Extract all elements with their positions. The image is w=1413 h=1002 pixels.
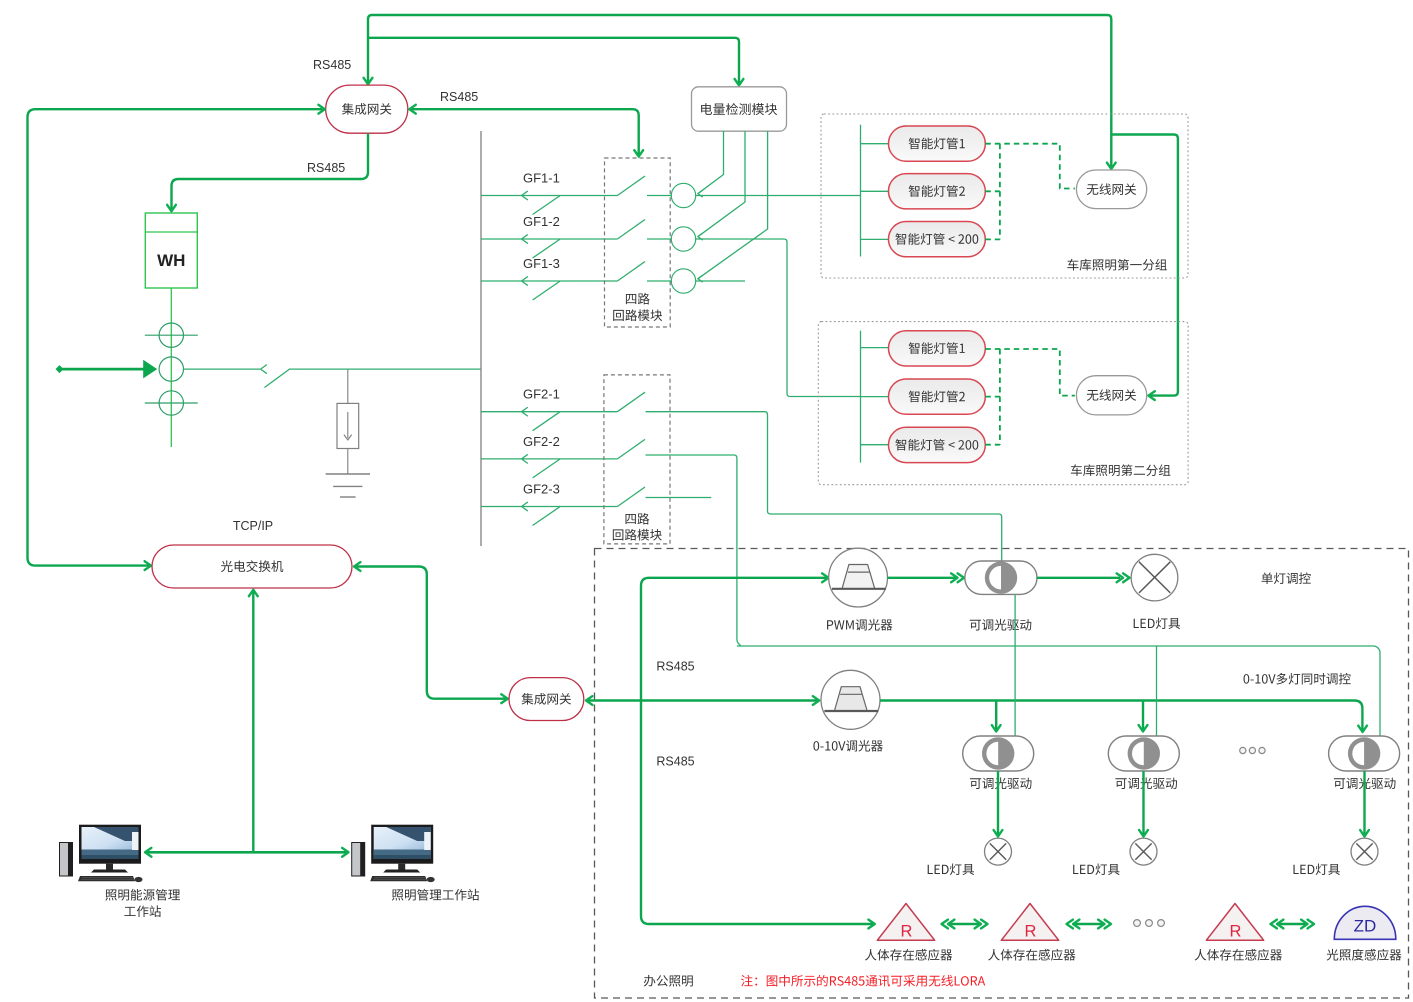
smart lamp 智能灯管2 (group2) bbox=[889, 379, 986, 414]
wire: GF2-2 to multi-lamp bus bbox=[646, 455, 741, 646]
svg-text:RS485: RS485 bbox=[656, 660, 694, 674]
group2 wireless dashed link bbox=[985, 349, 1075, 445]
CT coil 3 bbox=[145, 391, 198, 415]
smart lamp 智能灯管<200 (group2) bbox=[889, 427, 986, 462]
wire: GF2-1 to single-lamp dimming feed bbox=[646, 412, 1002, 562]
svg-text:GF1-1: GF1-1 bbox=[523, 171, 560, 186]
wireless gateway 无线网关 (group2) bbox=[1076, 376, 1146, 415]
label TCP/IP bbox=[233, 519, 273, 533]
disconnect switch blade (main feed) bbox=[265, 369, 291, 388]
svg-text:GF2-2: GF2-2 bbox=[523, 434, 560, 449]
breaker GF1-2 bbox=[481, 214, 671, 258]
relay contact circle GF1-2 bbox=[671, 227, 695, 251]
wire: driver C to LED C bbox=[1360, 771, 1369, 836]
svg-text:R: R bbox=[901, 923, 913, 941]
svg-text:R: R bbox=[1230, 923, 1242, 941]
dimmable driver0 可调光驱动 (single lamp) bbox=[965, 561, 1037, 631]
label RS485 (office upper) bbox=[656, 660, 694, 674]
smart lamp 智能灯管1 (group2) bbox=[889, 331, 986, 366]
wire RS485: gateway1 to 4-way module1 bbox=[409, 105, 643, 157]
label RS485 (top) bbox=[313, 58, 351, 72]
label 单灯调控 bbox=[1261, 572, 1310, 584]
garage lighting group1 box 车库照明第一分组 bbox=[821, 114, 1188, 278]
wire: photoelectric switch to gateway2 bbox=[354, 562, 508, 703]
office lighting box 办公照明 bbox=[595, 549, 1409, 999]
illuminance sensor ZD 光照度感应器 bbox=[1327, 906, 1402, 960]
LED luminaire B bbox=[1073, 838, 1157, 875]
relay contact circle GF1-3 bbox=[671, 269, 695, 293]
smart lamp 智能灯管<200 (group1) bbox=[889, 222, 986, 257]
ellipsis dots (sensors) bbox=[1134, 920, 1165, 927]
wire RS485: gateway1 bottom to WH meter bbox=[167, 133, 368, 211]
LED luminaire C bbox=[1293, 838, 1378, 875]
ellipsis dots (drivers) bbox=[1240, 747, 1265, 753]
wire: workstation link arrows bbox=[145, 848, 349, 857]
group2 tick to lamp3 bbox=[861, 444, 889, 446]
link R1-R2 (bidirectional) bbox=[942, 920, 988, 929]
0-10V dimmer 0-10V调光器 bbox=[813, 670, 882, 751]
label RS485 (gateway right) bbox=[440, 90, 478, 104]
svg-text:RS485: RS485 bbox=[307, 161, 345, 175]
breaker GF1-1 bbox=[481, 171, 671, 215]
group2 distribution bus bbox=[860, 331, 862, 463]
group2 tick to lamp1 bbox=[861, 347, 889, 349]
link R3-ZD (bidirectional) bbox=[1271, 920, 1315, 929]
CT coil 2 (line tap) bbox=[159, 357, 183, 381]
photoelectric switch 光电交换机 bbox=[152, 545, 352, 588]
wire: 0-10V dimmer trunk to driver C bbox=[880, 701, 1367, 733]
label RS485 (office lower) bbox=[656, 755, 694, 769]
wire: gateway2 to office trunk and 0-10V dimmer bbox=[586, 696, 819, 705]
thin drop: driver0 bottom to bus to driver A bbox=[1014, 594, 1016, 736]
presence sensor R3 人体存在感应器 bbox=[1195, 904, 1282, 961]
svg-text:GF2-1: GF2-1 bbox=[523, 387, 560, 402]
energy meter WH bbox=[145, 213, 197, 288]
4-way circuit module 2 四路回路模块 bbox=[604, 375, 670, 544]
wire: trunk drop to driver B bbox=[1139, 701, 1148, 732]
wire: left riser gateway1 to photoelectric-switch bbox=[28, 105, 326, 570]
svg-text:WH: WH bbox=[157, 251, 185, 270]
wire: detection module drop 3 bbox=[698, 131, 768, 282]
relay contact circle GF1-1 bbox=[671, 183, 695, 207]
wire: office riser (single-lamp row / sensors row) bbox=[641, 573, 875, 928]
wire: GF2-3 spare stub bbox=[646, 497, 712, 499]
wire: GF1-2 to garage group2 bus bbox=[696, 239, 861, 397]
group1 tick to lamp2 bbox=[861, 190, 889, 192]
wire: detection module drop 2 bbox=[698, 131, 745, 240]
note: RS485 LORA (red) bbox=[741, 975, 985, 987]
svg-text:GF2-3: GF2-3 bbox=[523, 482, 560, 497]
incoming supply arrow bbox=[56, 360, 158, 379]
svg-text:GF1-3: GF1-3 bbox=[523, 256, 560, 271]
breaker GF2-2 bbox=[481, 434, 645, 478]
breaker GF1-3 bbox=[481, 256, 671, 300]
dimmable driver A 可调光驱动 bbox=[963, 736, 1034, 789]
dimmable driver B 可调光驱动 bbox=[1108, 736, 1179, 789]
thin drop: bus to driver B bbox=[1156, 646, 1158, 736]
LED luminaire LED0 (single lamp) bbox=[1131, 554, 1180, 629]
svg-text:RS485: RS485 bbox=[440, 90, 478, 104]
svg-text:RS485: RS485 bbox=[313, 58, 351, 72]
wire: trunk drop to driver A bbox=[992, 701, 1001, 732]
breaker GF2-3 bbox=[481, 482, 645, 526]
LED luminaire A bbox=[928, 838, 1012, 875]
svg-text:ZD: ZD bbox=[1354, 917, 1377, 936]
garage lighting group2 box 车库照明第二分组 bbox=[818, 322, 1188, 485]
wire: driver A to LED A bbox=[994, 771, 1003, 836]
group1 tick to lamp1 bbox=[861, 143, 889, 145]
wire: trunk to power-detection-module bbox=[368, 38, 743, 86]
wire: PWM dimmer to dimmable driver0 bbox=[888, 573, 965, 582]
ground bbox=[326, 474, 370, 497]
smart lamp 智能灯管2 (group1) bbox=[889, 174, 986, 209]
presence sensor R1 人体存在感应器 bbox=[865, 904, 952, 961]
svg-text:RS485: RS485 bbox=[656, 755, 694, 769]
power detection module 电量检测模块 bbox=[692, 87, 787, 131]
workstation PC2 照明管理工作站 bbox=[351, 825, 479, 901]
current sensor (arrow box) bbox=[337, 403, 359, 448]
svg-text:TCP/IP: TCP/IP bbox=[233, 519, 273, 533]
wire: workstations to photoelectric switch bbox=[249, 590, 258, 853]
wire: GF1-3 spare stub bbox=[696, 280, 745, 282]
link R2-dots (bidirectional) bbox=[1067, 920, 1112, 929]
wire: detection module drop 1 bbox=[698, 131, 724, 197]
label 0-10V多灯同时调控 bbox=[1244, 673, 1351, 685]
wire: feeder vertical below WH bbox=[170, 288, 172, 447]
group1 distribution bus bbox=[860, 125, 862, 257]
group1 tick to lamp3 bbox=[861, 238, 889, 240]
wire: disconnect to busbar bbox=[290, 368, 481, 370]
thin 0-10V control bus (GF2-2) bbox=[737, 646, 1380, 736]
group2 tick to lamp2 bbox=[861, 396, 889, 398]
wire branch: trunk to wireless-gateway2 bbox=[1111, 135, 1178, 401]
PWM dimmer PWM调光器 bbox=[827, 548, 892, 630]
wireless gateway 无线网关 (group1) bbox=[1076, 170, 1146, 209]
wire: tap to current sensor bbox=[347, 369, 349, 403]
wire net: gateway1 top to wireless-gateway1 (RS485 trunk) bbox=[364, 15, 1116, 169]
busbar (vertical) bbox=[480, 131, 482, 546]
CT coil 1 bbox=[145, 323, 198, 347]
wire: driver0 to LED0 bbox=[1037, 573, 1130, 582]
wire: GF1-1 to garage group1 bus bbox=[696, 195, 861, 197]
svg-text:GF1-2: GF1-2 bbox=[523, 214, 560, 229]
svg-text:R: R bbox=[1025, 923, 1037, 941]
presence sensor R2 人体存在感应器 bbox=[988, 904, 1075, 961]
wire: sensor to ground bbox=[347, 449, 349, 475]
dimmable driver C 可调光驱动 bbox=[1329, 736, 1400, 789]
wire: main feed to disconnect bbox=[184, 365, 267, 373]
breaker GF2-1 bbox=[481, 387, 645, 431]
gateway U1 集成网关 bbox=[326, 85, 408, 133]
gateway U2 集成网关 (office) bbox=[509, 678, 584, 721]
wire: driver B to LED B bbox=[1139, 771, 1148, 836]
smart lamp 智能灯管1 (group1) bbox=[889, 126, 986, 161]
group1 wireless dashed link bbox=[985, 144, 1075, 240]
workstation PC1 照明能源管理工作站 bbox=[59, 825, 180, 917]
label RS485 (to WH meter) bbox=[307, 161, 345, 175]
4-way circuit module 1 四路回路模块 bbox=[605, 158, 671, 327]
